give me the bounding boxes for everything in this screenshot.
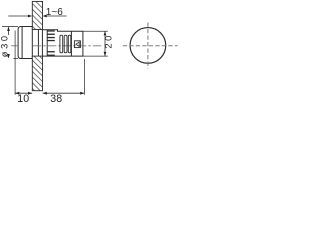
svg-text:ø30: ø30 (0, 33, 9, 57)
svg-text:38: 38 (50, 93, 62, 104)
svg-text:1~6: 1~6 (46, 7, 63, 18)
svg-text:20: 20 (104, 33, 114, 49)
svg-text:10: 10 (17, 93, 29, 104)
